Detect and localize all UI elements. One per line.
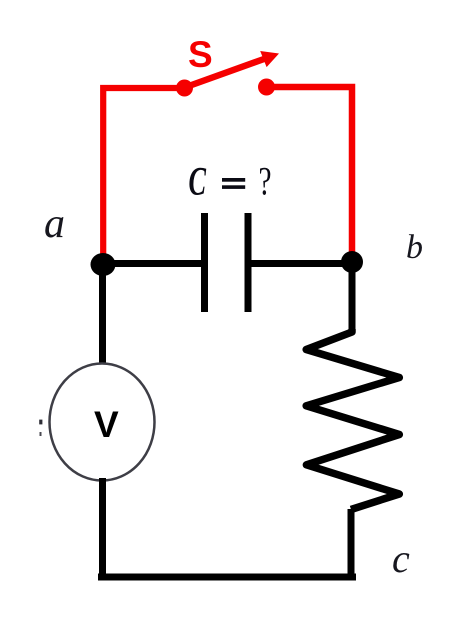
resistor (zigzag) <box>306 329 399 510</box>
wire: capacitor right plate to node b <box>251 260 352 267</box>
label = of "C = ?" (two bars) <box>222 178 245 182</box>
switch S arm (blade with arrowhead) <box>186 51 279 87</box>
wire: node b down to resistor top <box>349 262 356 333</box>
svg-text:V: V <box>94 404 119 445</box>
svg-text:C: C <box>189 159 207 204</box>
capacitor C right plate <box>245 213 252 312</box>
wire: node a to capacitor left plate <box>103 260 201 267</box>
svg-text:S: S <box>188 34 213 75</box>
artifact colon left of V (two tiny marks) <box>39 420 42 425</box>
wire: bottom horizontal <box>98 574 356 581</box>
node a (junction dot) <box>91 253 116 276</box>
svg-text:b: b <box>406 229 423 266</box>
switch S right contact dot <box>258 79 275 96</box>
voltage source V (circle) <box>50 364 155 481</box>
switch S left contact dot <box>176 80 193 97</box>
svg-text:a: a <box>44 201 65 247</box>
wire: red top-right (horizontal + vertical down to node b) <box>267 87 353 255</box>
node b (junction dot) <box>341 251 363 273</box>
svg-text:?: ? <box>259 159 272 204</box>
wire: red top-left (horizontal + vertical down to node a) <box>103 88 185 258</box>
svg-text:c: c <box>392 536 410 581</box>
wire: resistor bottom to bottom wire <box>348 509 355 577</box>
capacitor C left plate <box>201 213 208 312</box>
wire: voltage source bottom to bottom-left corner <box>99 478 106 577</box>
wire: node a down to voltage source <box>99 264 106 366</box>
